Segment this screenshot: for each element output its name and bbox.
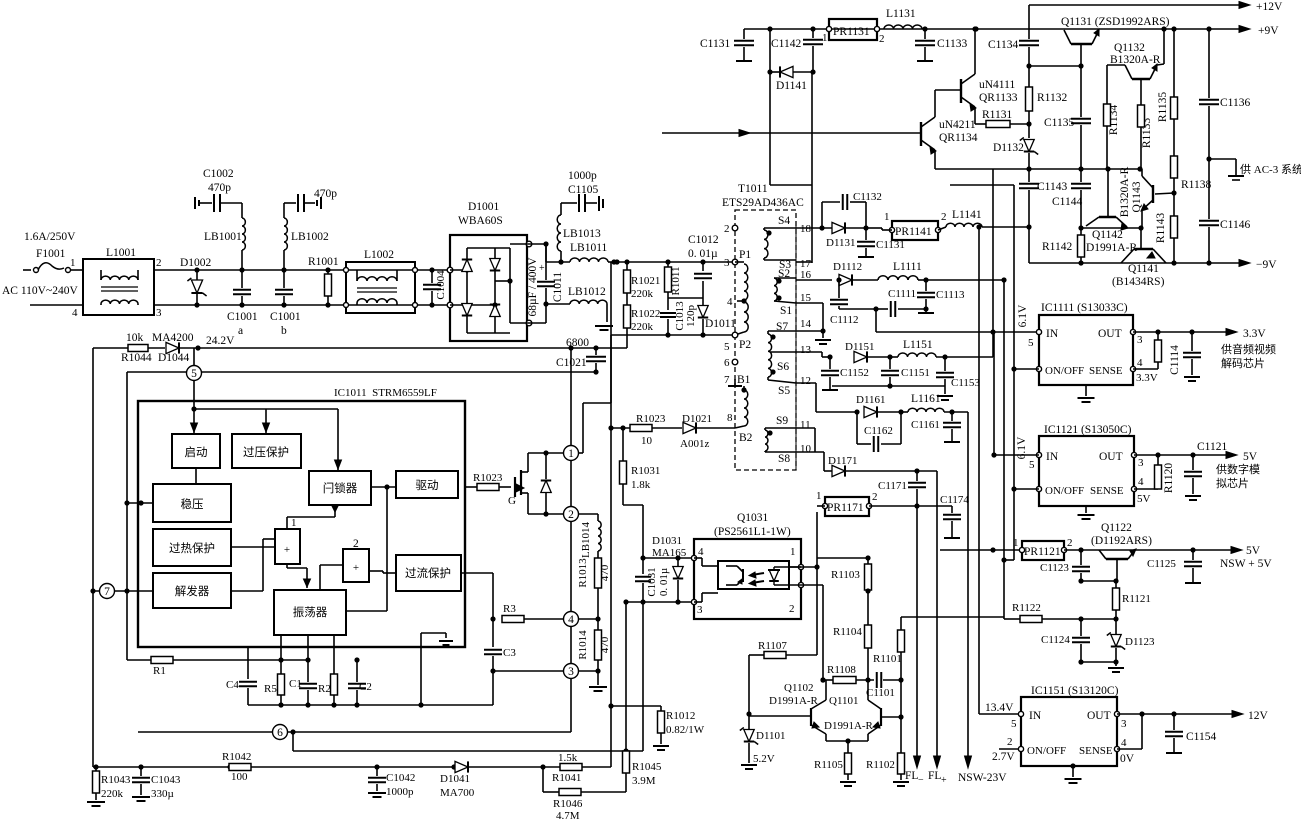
svg-text:C1162: C1162 [864,425,893,437]
svg-text:闩锁器: 闩锁器 [323,481,358,495]
node 1 circle [564,446,579,461]
chassis AC-3 tap [1209,158,1236,160]
svg-text:L1151: L1151 [903,339,933,351]
svg-text:4: 4 [568,614,574,626]
wire pin15 to ground [796,302,823,304]
wire node1 to drain bus [578,452,583,454]
svg-text:C1174: C1174 [940,494,969,506]
svg-text:PR1131: PR1131 [833,26,870,38]
svg-text:D1011: D1011 [705,318,736,330]
resistor IC1111 sense [1133,368,1158,370]
svg-text:1000p: 1000p [568,170,597,182]
svg-text:D1151: D1151 [845,341,875,353]
IC1151 ground [1070,763,1075,768]
svg-text:LB1014: LB1014 [580,521,592,558]
svg-text:C1012: C1012 [688,234,719,246]
capacitor C1004 [429,267,434,272]
snubber bottom rung to P2 [668,334,735,336]
svg-text:4: 4 [72,307,78,319]
svg-text:uN4211: uN4211 [939,119,976,131]
wire adder1 to oscillator [286,564,288,568]
IC pin wires oscillator bottom [280,635,282,674]
svg-text:过压保护: 过压保护 [243,445,289,459]
svg-text:R1143: R1143 [1155,213,1167,243]
line-filter L1001 [83,259,154,315]
IC1111 box [1039,315,1133,385]
winding B1-B2 [743,386,745,390]
svg-text:a: a [238,325,243,337]
secondary winding S4-S3 [766,230,771,235]
svg-text:R1132: R1132 [1037,92,1067,104]
mosfet body diode [528,452,546,454]
wire R1101 top to R1122 row [901,616,1004,618]
IC1111 pins [1036,329,1041,334]
wire +9V rail [744,28,1245,30]
IC1151 box [1021,697,1117,766]
svg-text:L1001: L1001 [106,247,136,259]
svg-text:5V: 5V [1137,493,1151,505]
svg-text:2: 2 [789,603,795,615]
svg-text:D1041: D1041 [440,773,470,785]
svg-text:启动: 启动 [185,446,208,459]
svg-text:C1002: C1002 [203,168,234,180]
svg-text:D1991A-R: D1991A-R [824,720,874,732]
IC1011 box [138,401,465,647]
node 5 circle [187,366,202,381]
svg-text:R1021: R1021 [631,275,660,287]
svg-text:LB1001: LB1001 [204,231,242,243]
transformer pin 2 [732,225,738,231]
node 6 circle [138,731,571,733]
svg-text:R1101: R1101 [873,653,902,665]
svg-text:B2: B2 [739,432,753,444]
svg-text:2.7V: 2.7V [992,751,1015,763]
svg-text:SENSE: SENSE [1079,745,1113,757]
ground below R1014 [597,671,599,685]
svg-text:LB1002: LB1002 [291,231,329,243]
svg-text:F1001: F1001 [36,248,66,260]
wire opto bottom rail [626,601,694,603]
capacitor C1001a [239,267,244,272]
wire opto top rail [643,557,694,559]
svg-text:IC1121 (S13050C): IC1121 (S13050C) [1044,424,1132,436]
svg-text:IN: IN [1029,710,1042,722]
svg-text:QR1134: QR1134 [939,132,978,144]
wire left inner vertical [126,372,128,660]
secondary winding S2-S1 [776,278,781,283]
svg-text:2: 2 [872,491,878,503]
svg-text:IC1111 (S13033C): IC1111 (S13033C) [1041,302,1128,314]
wire R1 row [127,659,308,661]
svg-text:+: + [353,562,359,574]
svg-text:LB1013: LB1013 [563,228,601,240]
svg-text:3: 3 [1121,718,1127,730]
svg-text:13: 13 [800,344,812,356]
wire sense row 169 [935,168,1140,170]
svg-text:16: 16 [800,269,812,281]
wire AC top to L1001 [70,269,83,271]
svg-text:C1151: C1151 [901,367,930,379]
wire pin10 row D1171 [796,451,824,453]
wire 13.4V bus [978,227,980,714]
transformer T1011 dashed box [735,210,796,470]
svg-text:Q1141: Q1141 [1128,263,1159,275]
wire PR1171 pin2 row [869,505,952,507]
svg-text:R3: R3 [503,603,516,615]
svg-text:D1991A-R: D1991A-R [769,695,819,707]
opto LED [773,567,775,571]
svg-text:R1046: R1046 [553,798,583,810]
svg-text:C1136: C1136 [1220,97,1250,109]
wire bus 1004 [1001,277,1006,282]
svg-text:QR1133: QR1133 [979,92,1018,104]
wire -9V rail [1029,262,1245,264]
wire startup branch [191,406,196,411]
svg-text:R1108: R1108 [827,664,856,676]
opto pin4 step [694,557,702,559]
wire IC1111 onoff [1014,368,1039,370]
svg-text:L1161: L1161 [911,393,941,405]
wire pin13 row D1151 [796,351,822,353]
wire pin14 to ground [796,330,823,332]
capacitor C1001b [281,267,286,272]
svg-text:5V: 5V [1243,451,1258,463]
svg-text:2: 2 [353,538,359,550]
wire overcurrent to R3 [461,572,493,574]
svg-text:C1152: C1152 [840,367,869,379]
secondary winding S6 label [770,369,775,374]
wire Q1131 base row [1029,65,1081,67]
wire pins column [570,348,572,445]
svg-text:供 AC-3 系统: 供 AC-3 系统 [1240,162,1301,176]
opto arrows [752,573,764,583]
wire adder2 input [320,564,343,566]
svg-text:+: + [539,263,545,274]
svg-text:LB1011: LB1011 [570,242,608,254]
block thermal protect [153,529,231,566]
svg-text:L1141: L1141 [952,209,982,221]
line-filter L1002 [346,262,415,313]
svg-text:7: 7 [104,586,110,598]
svg-text:R1121: R1121 [1122,593,1151,605]
svg-text:FL: FL [928,770,941,782]
opto pin3 step [694,601,702,603]
svg-text:4: 4 [1137,357,1143,369]
svg-text:2: 2 [156,257,162,269]
svg-text:2: 2 [1007,736,1013,748]
svg-text:+: + [941,775,947,786]
svg-text:10k: 10k [126,332,144,344]
svg-text:ON/OFF: ON/OFF [1045,485,1084,497]
wire Q1143 base to R1138 [1155,193,1174,194]
wire IC1151 out row [1117,713,1236,715]
wire bottom AC rail [154,304,450,306]
wire Vcc 24.2V rail [198,347,627,349]
wire top AC rail [154,269,450,271]
svg-text:D1161: D1161 [856,394,886,406]
svg-text:R1031: R1031 [631,465,660,477]
svg-text:OUT: OUT [1099,451,1123,463]
svg-text:8: 8 [727,412,733,424]
svg-text:1: 1 [884,211,890,223]
svg-text:R1001: R1001 [308,256,339,268]
secondary winding S7-S6 [770,334,775,339]
primary winding P1-P2 [735,261,744,263]
svg-text:S6: S6 [777,361,789,373]
IC1151 out sense [1114,711,1119,716]
svg-text:C1131: C1131 [700,38,730,50]
wire Q1132 emitter to 9V [1157,64,1164,65]
svg-text:P2: P2 [739,339,751,351]
svg-text:B1: B1 [737,374,751,386]
block jiefaqi (trigger) [153,573,231,608]
svg-text:100: 100 [231,771,248,783]
snubber mid rung [668,297,703,299]
svg-text:S5: S5 [778,385,790,397]
svg-text:R1104: R1104 [833,626,862,638]
wire Q1101 base out [881,716,901,718]
svg-text:220k: 220k [631,321,654,333]
svg-text:5: 5 [724,341,730,353]
svg-text:C1105: C1105 [568,184,598,196]
svg-text:C1142: C1142 [771,38,801,50]
node 4 circle [595,616,600,621]
svg-text:PR1121: PR1121 [1024,546,1061,558]
svg-text:R1042: R1042 [222,751,251,763]
internal ground stub [420,647,422,705]
wire HV rail to P1 [614,261,735,263]
wire latch feedback [384,484,389,489]
block latch [309,471,371,505]
svg-text:SENSE: SENSE [1090,485,1124,497]
adder 1 [275,529,300,564]
svg-text:1: 1 [790,546,796,558]
svg-text:驱动: 驱动 [416,479,439,492]
svg-text:D1001: D1001 [468,201,500,213]
svg-text:1: 1 [291,517,297,529]
svg-text:振荡器: 振荡器 [293,605,328,619]
block qidong (startup) [172,434,220,468]
wire R1012 sense [611,705,661,707]
svg-text:R1120: R1120 [1163,463,1175,493]
wire NSW-23V bus [967,412,969,761]
wire pin18 row [796,227,832,229]
svg-text:3.3V: 3.3V [1243,328,1266,340]
svg-text:uN4111: uN4111 [979,79,1015,91]
svg-text:R5: R5 [264,683,277,695]
svg-text:R1138: R1138 [1181,179,1211,191]
svg-text:330µ: 330µ [151,788,174,800]
svg-text:1: 1 [822,32,828,44]
svg-text:0. 01µ: 0. 01µ [658,568,670,596]
svg-text:Q1142: Q1142 [1092,229,1123,241]
svg-text:R1045: R1045 [632,761,662,773]
wire pin17 stub [796,261,812,263]
svg-text:10: 10 [800,443,812,455]
svg-text:C3: C3 [503,647,516,659]
wire Q1132 base to R1133 [1140,79,1142,105]
svg-text:+: + [284,544,290,556]
svg-text:C1111: C1111 [888,288,916,300]
svg-text:R1012: R1012 [666,710,695,722]
svg-text:12: 12 [800,375,811,387]
svg-text:R1103: R1103 [831,569,860,581]
svg-text:1000p: 1000p [386,786,414,798]
svg-text:R1023: R1023 [636,413,666,425]
svg-text:2: 2 [724,223,730,235]
svg-text:P1: P1 [739,249,751,261]
wire IC1111 out [1133,331,1230,333]
svg-text:1: 1 [70,257,76,269]
opto phototransistor [726,565,737,567]
svg-text:6.1V: 6.1V [1016,436,1028,459]
wire emitter rail [826,740,868,742]
svg-text:ETS29AD436AC: ETS29AD436AC [722,197,804,209]
svg-text:ON/OFF: ON/OFF [1045,365,1084,377]
svg-text:18: 18 [800,223,812,235]
fuse F1001 [23,269,31,271]
block oscillator [274,590,346,635]
svg-text:C1101: C1101 [866,687,895,699]
svg-text:解发器: 解发器 [175,584,210,598]
svg-text:S2: S2 [778,268,790,280]
svg-text:B1320A-R: B1320A-R [1119,166,1131,217]
wire pin12 row D1161 [796,382,816,384]
svg-text:4: 4 [727,296,733,308]
svg-text:S4: S4 [778,215,790,227]
block overvoltage protect [232,434,301,468]
svg-text:R1142: R1142 [1042,241,1072,253]
svg-text:OUT: OUT [1098,328,1122,340]
svg-text:C1004: C1004 [435,270,447,300]
wire onoff row 185 [950,184,1014,186]
svg-text:D1002: D1002 [180,257,212,269]
svg-text:5: 5 [1028,337,1034,349]
wire opto pin2 [774,584,823,586]
svg-text:D1031: D1031 [652,535,682,547]
wire Q1143 emitter [1141,210,1143,228]
svg-text:C1113: C1113 [936,289,965,301]
svg-text:NSW + 5V: NSW + 5V [1220,558,1272,570]
wire PR1121 row [940,549,1022,551]
svg-text:Q1131 (ZSD1992ARS): Q1131 (ZSD1992ARS) [1061,16,1170,28]
svg-text:R1023: R1023 [473,472,503,484]
svg-text:1.8k: 1.8k [631,479,651,491]
svg-text:D1123: D1123 [1125,636,1155,648]
wire L1111 out to bus [926,279,1004,281]
svg-text:5: 5 [1029,459,1035,471]
svg-text:S7: S7 [776,321,788,333]
wire node5 vertical to startup [193,348,195,366]
wire pin17 riser [811,72,813,263]
svg-text:2: 2 [879,33,885,45]
svg-text:6.1V: 6.1V [1017,304,1029,327]
block overcurrent protect [396,555,461,591]
wire pin11 stub [796,427,815,429]
svg-text:ON/OFF: ON/OFF [1027,745,1066,757]
svg-text:1: 1 [816,490,822,502]
wire adder2 to overcurrent [369,570,383,572]
svg-text:4.7M: 4.7M [556,810,580,819]
svg-text:IC1151 (S13120C): IC1151 (S13120C) [1031,685,1119,697]
svg-text:1: 1 [568,448,574,460]
svg-text:C1042: C1042 [386,772,415,784]
svg-text:R1043: R1043 [101,774,131,786]
svg-text:3: 3 [568,666,574,678]
wire R1046 row [543,791,559,793]
svg-text:0.82/1W: 0.82/1W [666,724,705,736]
wire to R1045 [625,602,627,751]
svg-text:3: 3 [1138,457,1144,469]
svg-text:120p: 120p [685,305,697,328]
wire node6 corner [566,731,568,733]
wire left outer vertical [92,348,94,767]
svg-text:PR1171: PR1171 [827,502,864,514]
secondary winding S9-S8 [767,430,772,435]
svg-text:5: 5 [1011,718,1017,730]
svg-text:C1135: C1135 [1044,117,1074,129]
svg-text:6: 6 [724,357,730,369]
wire Q1142 base [1107,169,1109,217]
svg-text:R1041: R1041 [552,772,581,784]
svg-text:1.6A/250V: 1.6A/250V [24,231,76,243]
svg-text:11: 11 [800,419,811,431]
regulator PR1171 [825,497,869,516]
svg-text:C1161: C1161 [911,419,940,431]
svg-text:拟芯片: 拟芯片 [1216,476,1249,490]
svg-text:D1132: D1132 [993,142,1024,154]
wire D1123 ground row [1081,661,1116,663]
svg-text:5.2V: 5.2V [753,753,775,765]
svg-text:T1011: T1011 [738,183,768,195]
svg-text:R1135: R1135 [1157,92,1169,122]
svg-text:D1131: D1131 [826,237,856,249]
wire QR1133 emitter [974,107,976,124]
svg-text:C4: C4 [226,679,239,691]
svg-text:LB1012: LB1012 [568,286,606,298]
svg-text:4: 4 [1121,737,1127,749]
svg-text:C1133: C1133 [937,38,967,50]
wire D1171 out corner [917,470,937,472]
svg-text:0. 01µ: 0. 01µ [688,248,718,260]
node 2 circle [564,507,579,522]
svg-text:b: b [281,325,287,337]
IC1121 pins [1036,452,1041,457]
svg-text:MA4200: MA4200 [152,332,194,344]
svg-text:S8: S8 [778,453,790,465]
regulator PR1141 [892,221,938,240]
svg-text:C1112: C1112 [830,314,859,326]
svg-text:MA700: MA700 [440,787,475,799]
wire Q1122 base row [1081,580,1116,582]
svg-text:解码芯片: 解码芯片 [1221,356,1265,370]
svg-text:Q1101: Q1101 [829,695,859,707]
wire FL- bus [916,506,918,761]
wire Q1142 collector row [1081,227,1141,229]
svg-text:220k: 220k [101,788,124,800]
svg-text:2: 2 [1067,537,1073,549]
svg-text:C1146: C1146 [1220,219,1250,231]
IC1121 box [1039,436,1134,506]
block driver [396,471,458,498]
svg-text:4: 4 [698,546,704,558]
svg-text:0V: 0V [1120,753,1135,765]
svg-text:C1114: C1114 [1169,345,1181,375]
svg-text:+9V: +9V [1258,25,1279,37]
wire QR1134 emitter [934,150,936,169]
wire IC1151 sense loop [1117,748,1142,750]
svg-text:IN: IN [1046,328,1059,340]
